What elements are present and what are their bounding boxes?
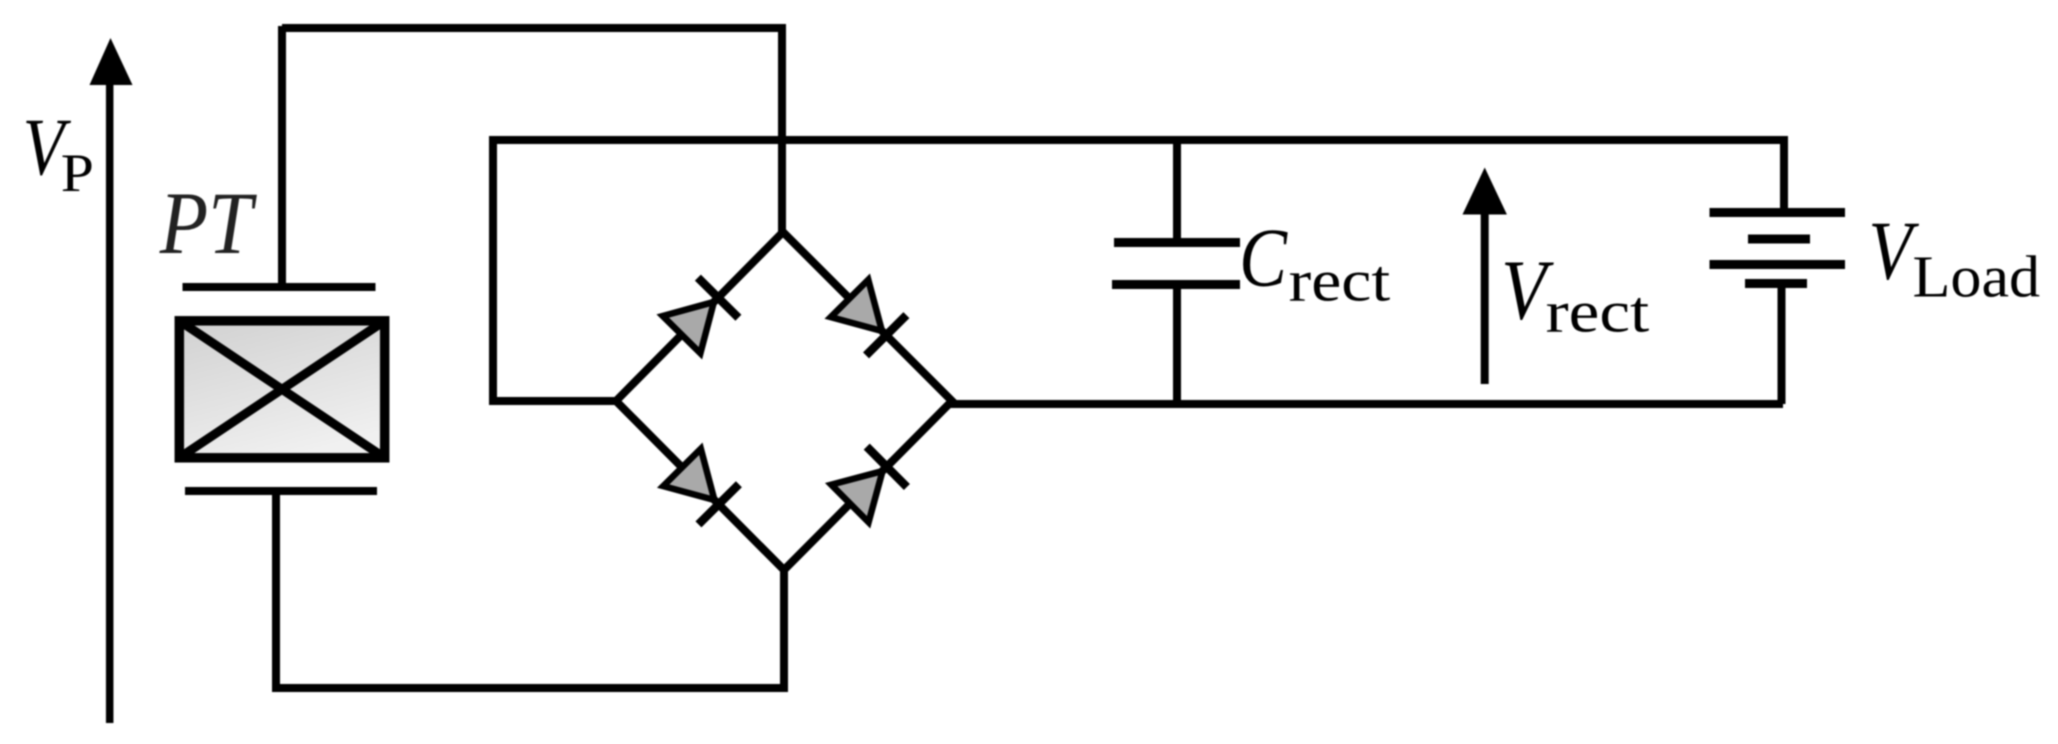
svg-text:V: V: [1868, 205, 1919, 297]
svg-text:P: P: [61, 144, 94, 203]
svg-text:C: C: [1239, 212, 1288, 304]
svg-text:rect: rect: [1289, 247, 1391, 313]
svg-text:rect: rect: [1546, 279, 1650, 344]
svg-text:PT: PT: [159, 175, 257, 273]
svg-text:Load: Load: [1912, 245, 2040, 310]
